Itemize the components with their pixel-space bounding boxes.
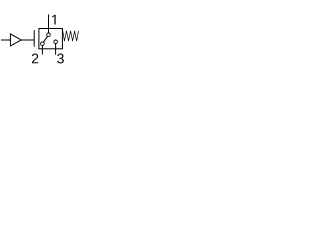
port 2 line (bottom left) xyxy=(41,45,43,54)
port label 3 xyxy=(57,54,64,64)
seat circle at port 3 xyxy=(54,40,58,44)
port label 2 xyxy=(32,54,38,64)
seat circle at port 2 xyxy=(41,42,45,46)
pneumatic pilot triangle xyxy=(10,34,21,46)
port 3 line (bottom right) xyxy=(55,44,57,55)
port label 1 xyxy=(52,15,55,25)
wire from pilot triangle to plunger xyxy=(21,39,34,41)
return spring xyxy=(62,29,78,41)
valve body box xyxy=(39,29,63,49)
valve element diagonal xyxy=(42,35,48,44)
seat circle at port 1 xyxy=(47,33,51,37)
port 1 line (top) xyxy=(48,15,50,34)
plunger bar xyxy=(33,30,35,46)
pilot signal line (left) xyxy=(1,39,10,41)
